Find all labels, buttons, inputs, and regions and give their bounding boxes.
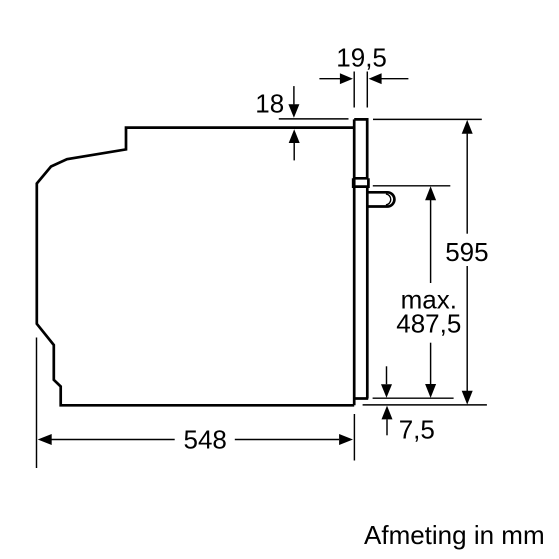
svg-text:Afmeting in mm: Afmeting in mm xyxy=(364,520,545,550)
svg-text:487,5: 487,5 xyxy=(396,308,461,338)
svg-text:19,5: 19,5 xyxy=(336,42,387,72)
svg-text:548: 548 xyxy=(184,425,227,455)
svg-text:7,5: 7,5 xyxy=(399,414,435,444)
svg-text:18: 18 xyxy=(255,89,284,119)
svg-text:595: 595 xyxy=(445,237,488,267)
